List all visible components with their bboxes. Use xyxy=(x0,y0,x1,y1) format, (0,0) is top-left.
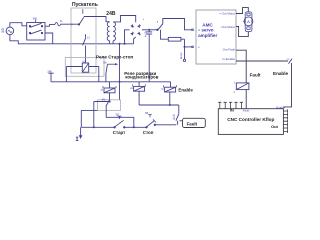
CNC top pins xyxy=(218,102,243,108)
svg-text:а1: а1 xyxy=(161,88,164,91)
svg-text:минус: минус xyxy=(180,52,183,59)
svg-text:24В: 24В xyxy=(106,11,116,17)
bridge rectifier VD1 xyxy=(131,24,141,35)
fault NC contact K3.1 xyxy=(176,105,179,125)
svg-text:1: 1 xyxy=(234,82,236,85)
control bus wire xyxy=(51,81,171,83)
svg-text:+: + xyxy=(142,17,144,21)
contactor aux contact 2 xyxy=(83,34,86,63)
fault relay coil K3 xyxy=(236,83,249,90)
Puskatel enclosure box xyxy=(71,8,96,73)
CNC Controller Kflop U2 xyxy=(218,109,283,135)
svg-text:13: 13 xyxy=(286,59,289,61)
svg-text:F1: F1 xyxy=(60,20,63,23)
bottom rail xyxy=(81,125,176,128)
contactor top stub xyxy=(35,20,37,23)
svg-text:Старт: Старт xyxy=(113,130,126,135)
svg-text:SB: SB xyxy=(116,113,120,116)
svg-text:КМ: КМ xyxy=(102,98,105,101)
svg-text:КМ1: КМ1 xyxy=(33,18,38,21)
svg-text:Fault: Fault xyxy=(187,122,198,127)
wire bridge left down xyxy=(125,30,130,44)
CNC right pins xyxy=(283,109,287,133)
svg-text:КМ: КМ xyxy=(103,61,106,64)
wire enable to CNC xyxy=(283,63,291,107)
svg-text:а1: а1 xyxy=(130,87,133,90)
fault label box xyxy=(183,118,206,127)
svg-text:Стоп: Стоп xyxy=(143,130,154,135)
coil parallel branch wires xyxy=(66,67,98,82)
capacitor bank C1 xyxy=(146,30,152,82)
wire motor plus xyxy=(236,8,248,14)
svg-text:A: A xyxy=(247,19,250,24)
wire aux contact to transformer primary xyxy=(84,17,110,22)
contactor aux contact KM xyxy=(78,9,84,25)
AC source G1 xyxy=(6,27,14,35)
svg-text:конденсаторов: конденсаторов xyxy=(125,75,158,80)
svg-text:96: 96 xyxy=(173,119,176,121)
power feed wire xyxy=(119,44,121,101)
wire left drop xyxy=(81,109,97,111)
svg-text:Пускатель: Пускатель xyxy=(72,2,98,8)
wire source top to contactor xyxy=(10,23,27,27)
svg-text:а1: а1 xyxy=(101,88,104,91)
wire Out Fault down xyxy=(236,50,246,83)
self-hold contact enclosure xyxy=(98,100,121,111)
wire In Enable xyxy=(236,60,288,62)
wire secondary bottom xyxy=(112,41,114,44)
wire pole1 to fuse xyxy=(45,25,55,27)
svg-text:Out Fault: Out Fault xyxy=(223,48,236,52)
contactor KM main contacts box xyxy=(27,23,45,41)
svg-text:Реле Старт-стоп: Реле Старт-стоп xyxy=(96,55,133,60)
fuse F1 xyxy=(55,23,61,26)
wire contact bottom bypass xyxy=(106,106,134,127)
relay contact K1.1 xyxy=(157,24,163,31)
wire contact to amplifier plus xyxy=(163,19,193,30)
start button SB1 xyxy=(114,116,125,128)
discharge relay coil K2b xyxy=(133,84,146,91)
svg-text:CNC Controller Kflop: CNC Controller Kflop xyxy=(227,117,274,122)
wire coil to CNC Fault pin xyxy=(245,90,247,109)
wire DC plus xyxy=(142,29,157,31)
enable switch S1 xyxy=(289,59,293,64)
wire amplifier minus xyxy=(184,39,186,59)
svg-text:amplifier: amplifier xyxy=(198,33,217,38)
svg-text:Fault: Fault xyxy=(243,108,249,112)
svg-text:13: 13 xyxy=(87,37,90,40)
wire motor minus xyxy=(236,27,248,37)
svg-text:In Enable: In Enable xyxy=(222,57,235,61)
discharge resistor R1 xyxy=(161,30,169,39)
wire source bottom return xyxy=(10,35,134,44)
svg-text:-п: -п xyxy=(198,46,201,49)
wire pole2 to bottom return xyxy=(45,33,53,44)
svg-text:Out: Out xyxy=(271,124,279,129)
wire secondary top to bridge xyxy=(113,16,136,23)
wire primary bottom xyxy=(109,41,111,44)
contactor pole 2 xyxy=(29,30,42,34)
svg-text:95: 95 xyxy=(173,115,176,117)
terminal X1 xyxy=(183,59,185,61)
svg-text:Fault: Fault xyxy=(250,73,261,78)
discharge relay coil K2a xyxy=(103,86,116,93)
wire fuse to aux contact xyxy=(61,23,79,25)
stop button SB2 xyxy=(146,115,156,128)
wire to rail left xyxy=(94,101,110,103)
svg-text:2: 2 xyxy=(234,91,236,94)
svg-text:servo: servo xyxy=(201,28,213,33)
svg-text:3: 3 xyxy=(157,21,159,24)
svg-text:- Out Motor: - Out Motor xyxy=(220,25,235,29)
ground arrow xyxy=(80,127,82,136)
motor M1 xyxy=(244,12,253,32)
start-stop relay enclosure xyxy=(65,58,104,77)
svg-text:SB: SB xyxy=(145,112,149,115)
svg-text:+ Out Motor: + Out Motor xyxy=(219,11,235,15)
enable relay coil K4 xyxy=(164,85,177,92)
svg-text:Enable: Enable xyxy=(273,71,289,76)
wire bridge bottom xyxy=(134,37,136,44)
svg-text:4х10т: 4х10т xyxy=(145,30,148,37)
contactor pole 1 xyxy=(29,23,42,27)
svg-text:Enable: Enable xyxy=(178,87,193,92)
svg-text:Enable: Enable xyxy=(276,105,285,109)
AMC servo amplifier U1 xyxy=(196,10,236,64)
svg-text:0В: 0В xyxy=(1,30,4,34)
lower bus wire xyxy=(139,104,179,106)
